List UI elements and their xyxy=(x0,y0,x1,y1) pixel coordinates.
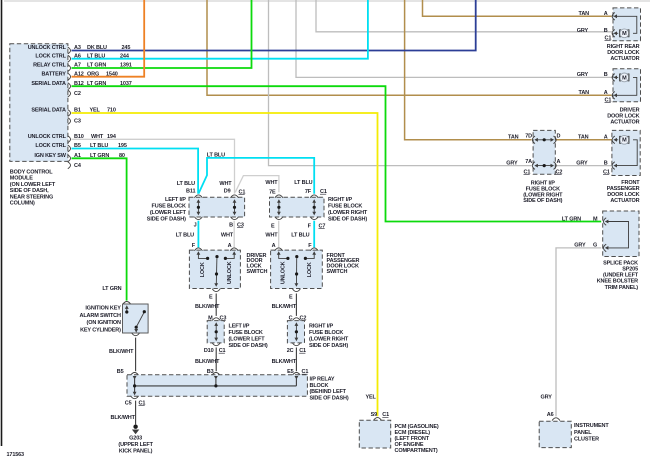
svg-text:C5: C5 xyxy=(125,401,132,407)
svg-text:LOCK: LOCK xyxy=(307,262,313,277)
svg-text:FUSE BLOCK: FUSE BLOCK xyxy=(328,204,362,210)
svg-text:F: F xyxy=(308,223,312,229)
wire BLK/WHT passenger E to fuse C xyxy=(295,294,297,316)
pass-through 7D-D xyxy=(532,136,535,144)
svg-text:BLK/WHT: BLK/WHT xyxy=(195,304,220,310)
svg-text:BLOCK: BLOCK xyxy=(310,383,329,389)
svg-text:SIDE OF DASH,: SIDE OF DASH, xyxy=(10,188,49,194)
svg-text:LT GRN: LT GRN xyxy=(87,63,106,69)
front passenger actuator internal wiring xyxy=(616,140,638,166)
svg-text:LT BLU: LT BLU xyxy=(291,233,309,239)
svg-text:TAN: TAN xyxy=(508,135,519,141)
svg-text:A: A xyxy=(272,243,276,249)
svg-text:PCM (GASOLINE): PCM (GASOLINE) xyxy=(395,424,439,430)
svg-text:A: A xyxy=(604,11,608,17)
svg-text:ACTUATOR: ACTUATOR xyxy=(610,56,639,62)
svg-text:(BEHIND LEFT: (BEHIND LEFT xyxy=(310,389,347,395)
svg-text:LEFT I/P: LEFT I/P xyxy=(165,197,186,203)
svg-text:LT GRN: LT GRN xyxy=(102,286,121,292)
wire TAN (from top to right I/P fuse block 7D) xyxy=(405,0,532,140)
svg-text:(UNDER LEFT: (UNDER LEFT xyxy=(603,273,639,279)
svg-text:BLK/WHT: BLK/WHT xyxy=(272,359,297,365)
motor M front passenger xyxy=(620,135,629,144)
svg-text:C3: C3 xyxy=(74,119,81,125)
svg-text:BATTERY: BATTERY xyxy=(41,71,66,77)
front passenger door lock switch box xyxy=(271,250,323,288)
svg-text:(UPPER LEFT: (UPPER LEFT xyxy=(118,442,153,448)
svg-text:SWITCH: SWITCH xyxy=(247,269,268,275)
BCM connector C4 xyxy=(68,162,71,169)
svg-text:TAN: TAN xyxy=(579,11,590,17)
passenger switch unlock contact xyxy=(277,251,281,255)
pin B driver actuator xyxy=(612,74,615,82)
passenger switch pole xyxy=(295,255,298,258)
relay block exit C5 xyxy=(133,392,137,396)
svg-text:M: M xyxy=(622,31,627,37)
svg-text:195: 195 xyxy=(118,143,127,149)
wire TAN (from top to right rear door lock actuator pin A) xyxy=(423,0,612,16)
svg-text:BLK/WHT: BLK/WHT xyxy=(195,359,220,365)
svg-text:OF ENGINE: OF ENGINE xyxy=(395,442,424,448)
svg-text:TAN: TAN xyxy=(579,90,590,96)
svg-text:B: B xyxy=(604,72,608,78)
pass-through 7F-F xyxy=(310,195,318,198)
wire GRY (from top to driver door lock actuator pin B) xyxy=(296,0,612,77)
pin E driver switch xyxy=(212,289,220,292)
wire WHT link D9 to 7E xyxy=(235,176,279,193)
svg-text:B11: B11 xyxy=(186,189,195,195)
svg-text:SWITCH: SWITCH xyxy=(327,269,348,275)
svg-text:LT BLU: LT BLU xyxy=(294,180,312,186)
svg-text:YEL: YEL xyxy=(365,395,376,401)
svg-text:1037: 1037 xyxy=(120,81,132,87)
svg-text:RELAY CTRL: RELAY CTRL xyxy=(33,63,67,69)
svg-text:WHT: WHT xyxy=(221,233,234,239)
svg-text:UNLOCK: UNLOCK xyxy=(280,261,286,284)
svg-text:INSTRUMENT: INSTRUMENT xyxy=(574,423,609,429)
pin B right rear xyxy=(612,30,615,38)
svg-text:LT BLU: LT BLU xyxy=(90,143,108,149)
svg-text:UNLOCK: UNLOCK xyxy=(227,261,233,284)
right I/P fuse block (right side) box xyxy=(533,130,555,174)
svg-text:ORG: ORG xyxy=(87,71,99,77)
driver switch lock contact xyxy=(197,251,201,255)
svg-text:F: F xyxy=(192,243,196,249)
ground G203 xyxy=(133,425,137,429)
wire LT BLU fuse J to driver switch F xyxy=(197,221,199,248)
wire LT GRN 80 (A1 ign key sw, to ignition key alarm switch) xyxy=(72,158,127,300)
splice pack SP205 box xyxy=(603,211,639,257)
right rear actuator internal wiring xyxy=(616,16,637,33)
BCM pin A12 xyxy=(68,73,71,80)
svg-text:GRY: GRY xyxy=(577,72,589,78)
svg-text:GRY: GRY xyxy=(541,395,553,401)
wire GRY (from top to right rear door lock actuator pin B) xyxy=(316,0,612,32)
svg-text:LOCK CTRL: LOCK CTRL xyxy=(35,143,66,149)
driver switch unlock contact xyxy=(232,251,236,255)
svg-text:A6: A6 xyxy=(547,412,554,418)
wire ORG 1540 (A12 battery, to top) xyxy=(72,0,145,77)
wire YEL 710 (B1 serial data, to PCM) xyxy=(72,113,378,416)
svg-text:LT BLU: LT BLU xyxy=(176,233,194,239)
pin G splice pack xyxy=(604,244,607,252)
svg-text:SIDE OF DASH): SIDE OF DASH) xyxy=(309,343,348,349)
svg-text:MODULE: MODULE xyxy=(10,176,33,182)
svg-text:RIGHT I/P: RIGHT I/P xyxy=(309,324,333,330)
svg-text:194: 194 xyxy=(107,134,117,140)
driver door lock switch box xyxy=(189,250,240,288)
svg-text:LT GRN: LT GRN xyxy=(562,216,581,222)
BCM connector C3 xyxy=(68,118,71,125)
BCM pin A6 xyxy=(68,55,71,62)
right rear door lock actuator box xyxy=(613,8,641,41)
svg-text:E5: E5 xyxy=(287,369,294,375)
right I/P fuse block (center) box xyxy=(270,197,325,217)
BCM pin B10 xyxy=(68,136,71,143)
small right I/P fuse block (C-2C) xyxy=(292,318,300,321)
BCM pin B1 xyxy=(68,110,71,117)
wire BLK/WHT D10 to relay B3 xyxy=(215,348,217,372)
svg-text:E: E xyxy=(209,295,213,301)
svg-text:D10: D10 xyxy=(204,348,214,354)
svg-text:SIDE OF DASH): SIDE OF DASH) xyxy=(328,217,367,223)
svg-text:TAN: TAN xyxy=(578,135,589,141)
ignition switch arm xyxy=(136,312,144,327)
svg-text:YEL: YEL xyxy=(90,108,101,114)
svg-text:CLUSTER: CLUSTER xyxy=(574,436,599,442)
ignition switch bottom connector xyxy=(132,333,140,336)
svg-text:(LOWER RIGHT: (LOWER RIGHT xyxy=(328,210,368,216)
wire TAN out of fuse block D to front passenger actuator pin A xyxy=(556,139,613,141)
svg-text:RIGHT I/P: RIGHT I/P xyxy=(328,197,352,203)
svg-text:7D: 7D xyxy=(525,133,532,139)
svg-text:A: A xyxy=(228,243,232,249)
svg-text:J: J xyxy=(194,222,197,228)
svg-text:A: A xyxy=(557,159,561,165)
svg-text:FUSE BLOCK: FUSE BLOCK xyxy=(152,204,186,210)
driver door lock actuator box xyxy=(613,69,641,102)
pass-through B11-J xyxy=(194,195,202,198)
instrument panel cluster box xyxy=(552,418,560,421)
svg-text:SIDE OF DASH): SIDE OF DASH) xyxy=(523,198,562,204)
svg-text:M: M xyxy=(622,138,627,144)
svg-text:KEY CYLINDER): KEY CYLINDER) xyxy=(80,327,121,333)
body control module (BCM) box xyxy=(10,44,68,162)
svg-text:UNLOCK CTRL: UNLOCK CTRL xyxy=(28,45,67,51)
wire WHT fuse B to driver switch A xyxy=(233,221,235,248)
svg-text:KNEE BOLSTER: KNEE BOLSTER xyxy=(597,279,638,285)
wire BLK/WHT 2C to relay E5 xyxy=(295,348,297,372)
svg-text:WHT: WHT xyxy=(265,233,278,239)
svg-text:171563: 171563 xyxy=(7,452,25,457)
pin B front passenger xyxy=(612,162,615,170)
wire GRY (from top to right I/P fuse block 7A) xyxy=(269,0,532,166)
svg-text:IGN KEY SW: IGN KEY SW xyxy=(34,153,66,159)
driver actuator internal wiring xyxy=(616,77,637,95)
svg-text:LEFT I/P: LEFT I/P xyxy=(229,324,250,330)
pin A right rear xyxy=(612,13,615,21)
svg-text:WHT: WHT xyxy=(219,181,232,187)
motor M driver xyxy=(620,73,629,82)
svg-text:GRY: GRY xyxy=(576,160,588,166)
svg-text:LT BLU: LT BLU xyxy=(207,153,225,159)
left I/P fuse block (center) box xyxy=(189,197,245,217)
svg-text:SIDE OF DASH): SIDE OF DASH) xyxy=(147,217,186,223)
svg-text:M: M xyxy=(622,75,627,81)
relay block entry B3 xyxy=(214,376,218,380)
svg-text:710: 710 xyxy=(107,108,116,114)
I/P relay block box xyxy=(127,375,307,397)
svg-text:SIDE OF DASH): SIDE OF DASH) xyxy=(229,343,268,349)
svg-text:C4: C4 xyxy=(74,163,82,169)
svg-text:2C: 2C xyxy=(287,348,294,354)
motor M right rear xyxy=(620,29,629,38)
svg-text:80: 80 xyxy=(119,153,125,159)
svg-text:(ON LOWER LEFT: (ON LOWER LEFT xyxy=(10,182,56,188)
svg-text:ACTUATOR: ACTUATOR xyxy=(610,120,639,126)
svg-text:B: B xyxy=(229,222,233,228)
svg-text:(LOWER LEFT: (LOWER LEFT xyxy=(229,337,266,343)
svg-text:B: B xyxy=(604,160,608,166)
svg-text:LT BLU: LT BLU xyxy=(177,181,195,187)
relay block entry E5 xyxy=(295,376,299,380)
svg-text:F: F xyxy=(308,243,312,249)
pin A driver actuator xyxy=(612,92,615,100)
wire GRY out of fuse block A to front passenger actuator pin B xyxy=(556,165,613,167)
BCM pin A3 xyxy=(68,47,71,54)
pass-through 7A-A xyxy=(532,162,535,170)
svg-text:G203: G203 xyxy=(129,436,142,442)
wire WHT 194 (B10 unlock ctrl, to left I/P fuse block D9) xyxy=(72,139,235,193)
svg-text:PANEL: PANEL xyxy=(574,430,592,436)
svg-text:BLK/WHT: BLK/WHT xyxy=(109,349,134,355)
svg-text:LOCK CTRL: LOCK CTRL xyxy=(35,53,66,59)
svg-text:C2: C2 xyxy=(74,91,81,97)
pass-through 7E-E xyxy=(275,195,283,198)
front passenger door lock actuator box xyxy=(612,130,640,175)
wire LT GRN 1391 (A7 relay ctrl, to top) xyxy=(72,0,252,68)
svg-text:(LEFT FRONT: (LEFT FRONT xyxy=(395,436,430,442)
pin A front passenger xyxy=(612,136,615,144)
svg-text:IGNITION KEY: IGNITION KEY xyxy=(85,306,121,312)
wire TAN (from top to driver door lock actuator pin A) xyxy=(207,0,612,95)
splice pack internal bus xyxy=(606,222,629,248)
wire BLK/WHT driver E to fuse M xyxy=(215,294,217,316)
svg-text:TRIM PANEL): TRIM PANEL) xyxy=(605,285,639,291)
wire WHT fuse E to passenger switch A xyxy=(278,221,280,248)
svg-text:SERIAL DATA: SERIAL DATA xyxy=(31,108,66,114)
relay block ground bus xyxy=(135,385,297,387)
svg-text:UNLOCK CTRL: UNLOCK CTRL xyxy=(28,134,67,140)
svg-text:WHT: WHT xyxy=(265,180,278,186)
BCM pin A1 xyxy=(68,155,71,162)
svg-text:244: 244 xyxy=(120,53,130,59)
svg-text:I/P RELAY: I/P RELAY xyxy=(310,377,335,383)
svg-text:B5: B5 xyxy=(117,369,124,375)
svg-text:E: E xyxy=(289,295,293,301)
svg-text:COMPARTMENT): COMPARTMENT) xyxy=(395,448,438,454)
svg-text:FUSE BLOCK: FUSE BLOCK xyxy=(229,330,263,336)
svg-text:WHT: WHT xyxy=(91,134,104,140)
wire BLK/WHT C5 to ground G203 xyxy=(135,401,137,425)
ignition switch contact xyxy=(125,305,129,309)
svg-text:BODY CONTROL: BODY CONTROL xyxy=(10,170,54,176)
svg-text:SIDE OF DASH): SIDE OF DASH) xyxy=(310,395,349,401)
svg-text:M: M xyxy=(593,216,598,222)
svg-text:DK BLU: DK BLU xyxy=(87,45,107,51)
svg-text:ECM (DIESEL): ECM (DIESEL) xyxy=(395,430,431,436)
svg-text:BLK/WHT: BLK/WHT xyxy=(111,415,136,421)
svg-text:D9: D9 xyxy=(224,189,231,195)
BCM pin A7 xyxy=(68,65,71,72)
svg-text:A: A xyxy=(604,90,608,96)
svg-text:SERIAL DATA: SERIAL DATA xyxy=(31,81,66,87)
svg-text:GRY: GRY xyxy=(574,243,586,249)
svg-text:ALARM SWITCH: ALARM SWITCH xyxy=(80,313,121,319)
svg-text:LT BLU: LT BLU xyxy=(87,53,105,59)
svg-text:S9: S9 xyxy=(371,412,378,418)
BCM pin B5 xyxy=(68,145,71,152)
pin M splice pack xyxy=(604,218,607,226)
pass-through D9-B xyxy=(231,195,239,198)
small left I/P fuse block (M-D10) xyxy=(212,318,220,321)
wire LT GRN 1037 (B12 serial data, to splice pack SP205) xyxy=(72,86,602,221)
svg-text:SP205: SP205 xyxy=(622,267,638,273)
wire LT BLU 244 (A6 lock ctrl, to top) xyxy=(72,0,368,59)
svg-text:D: D xyxy=(557,133,561,139)
wire LT BLU link B11 to 7F xyxy=(199,158,315,194)
svg-text:FUSE BLOCK: FUSE BLOCK xyxy=(309,330,343,336)
svg-text:COLUMN): COLUMN) xyxy=(10,201,35,207)
svg-text:KICK PANEL): KICK PANEL) xyxy=(119,449,153,455)
wire LT BLU 195 (B5 lock ctrl, to left I/P fuse block B11) xyxy=(72,149,199,194)
svg-text:SPLICE PACK: SPLICE PACK xyxy=(603,260,638,266)
svg-text:BLK/WHT: BLK/WHT xyxy=(272,304,297,310)
svg-text:LOCK: LOCK xyxy=(200,262,206,277)
svg-text:(LOWER LEFT: (LOWER LEFT xyxy=(150,210,187,216)
svg-text:A: A xyxy=(604,135,608,141)
svg-text:7E: 7E xyxy=(269,189,276,195)
passenger switch lock contact xyxy=(312,251,316,255)
BCM connector C2 xyxy=(68,90,71,97)
wire LT BLU fuse F to passenger switch F xyxy=(313,221,315,248)
svg-text:GRY: GRY xyxy=(577,28,589,34)
svg-text:7A: 7A xyxy=(525,159,532,165)
wire BLK/WHT ignition switch to relay B5 xyxy=(135,338,137,372)
wire GRY (splice pack G to instrument panel cluster) xyxy=(556,248,601,417)
pin E passenger switch xyxy=(292,289,300,292)
wire DK BLU 245 (A3 unlock ctrl, to top) xyxy=(72,0,476,51)
svg-text:LT GRN: LT GRN xyxy=(90,153,109,159)
ignition key alarm switch box xyxy=(123,302,131,305)
svg-text:245: 245 xyxy=(122,45,131,51)
svg-text:LT GRN: LT GRN xyxy=(87,81,106,87)
svg-text:1540: 1540 xyxy=(106,71,118,77)
svg-text:1391: 1391 xyxy=(120,63,132,69)
svg-text:ACTUATOR: ACTUATOR xyxy=(610,198,639,204)
svg-text:NEAR STEERING: NEAR STEERING xyxy=(10,194,53,200)
relay block entry B5 xyxy=(133,376,137,380)
svg-text:(ON IGNITION: (ON IGNITION xyxy=(87,320,121,326)
BCM pin B12 xyxy=(68,83,71,90)
svg-text:(LOWER RIGHT: (LOWER RIGHT xyxy=(309,337,349,343)
svg-text:GRY: GRY xyxy=(506,160,518,166)
svg-text:E: E xyxy=(271,223,275,229)
svg-text:B: B xyxy=(604,28,608,34)
driver switch pole xyxy=(215,255,218,258)
PCM/ECM box xyxy=(374,418,382,421)
svg-text:7F: 7F xyxy=(305,189,312,195)
svg-text:G: G xyxy=(593,243,597,249)
